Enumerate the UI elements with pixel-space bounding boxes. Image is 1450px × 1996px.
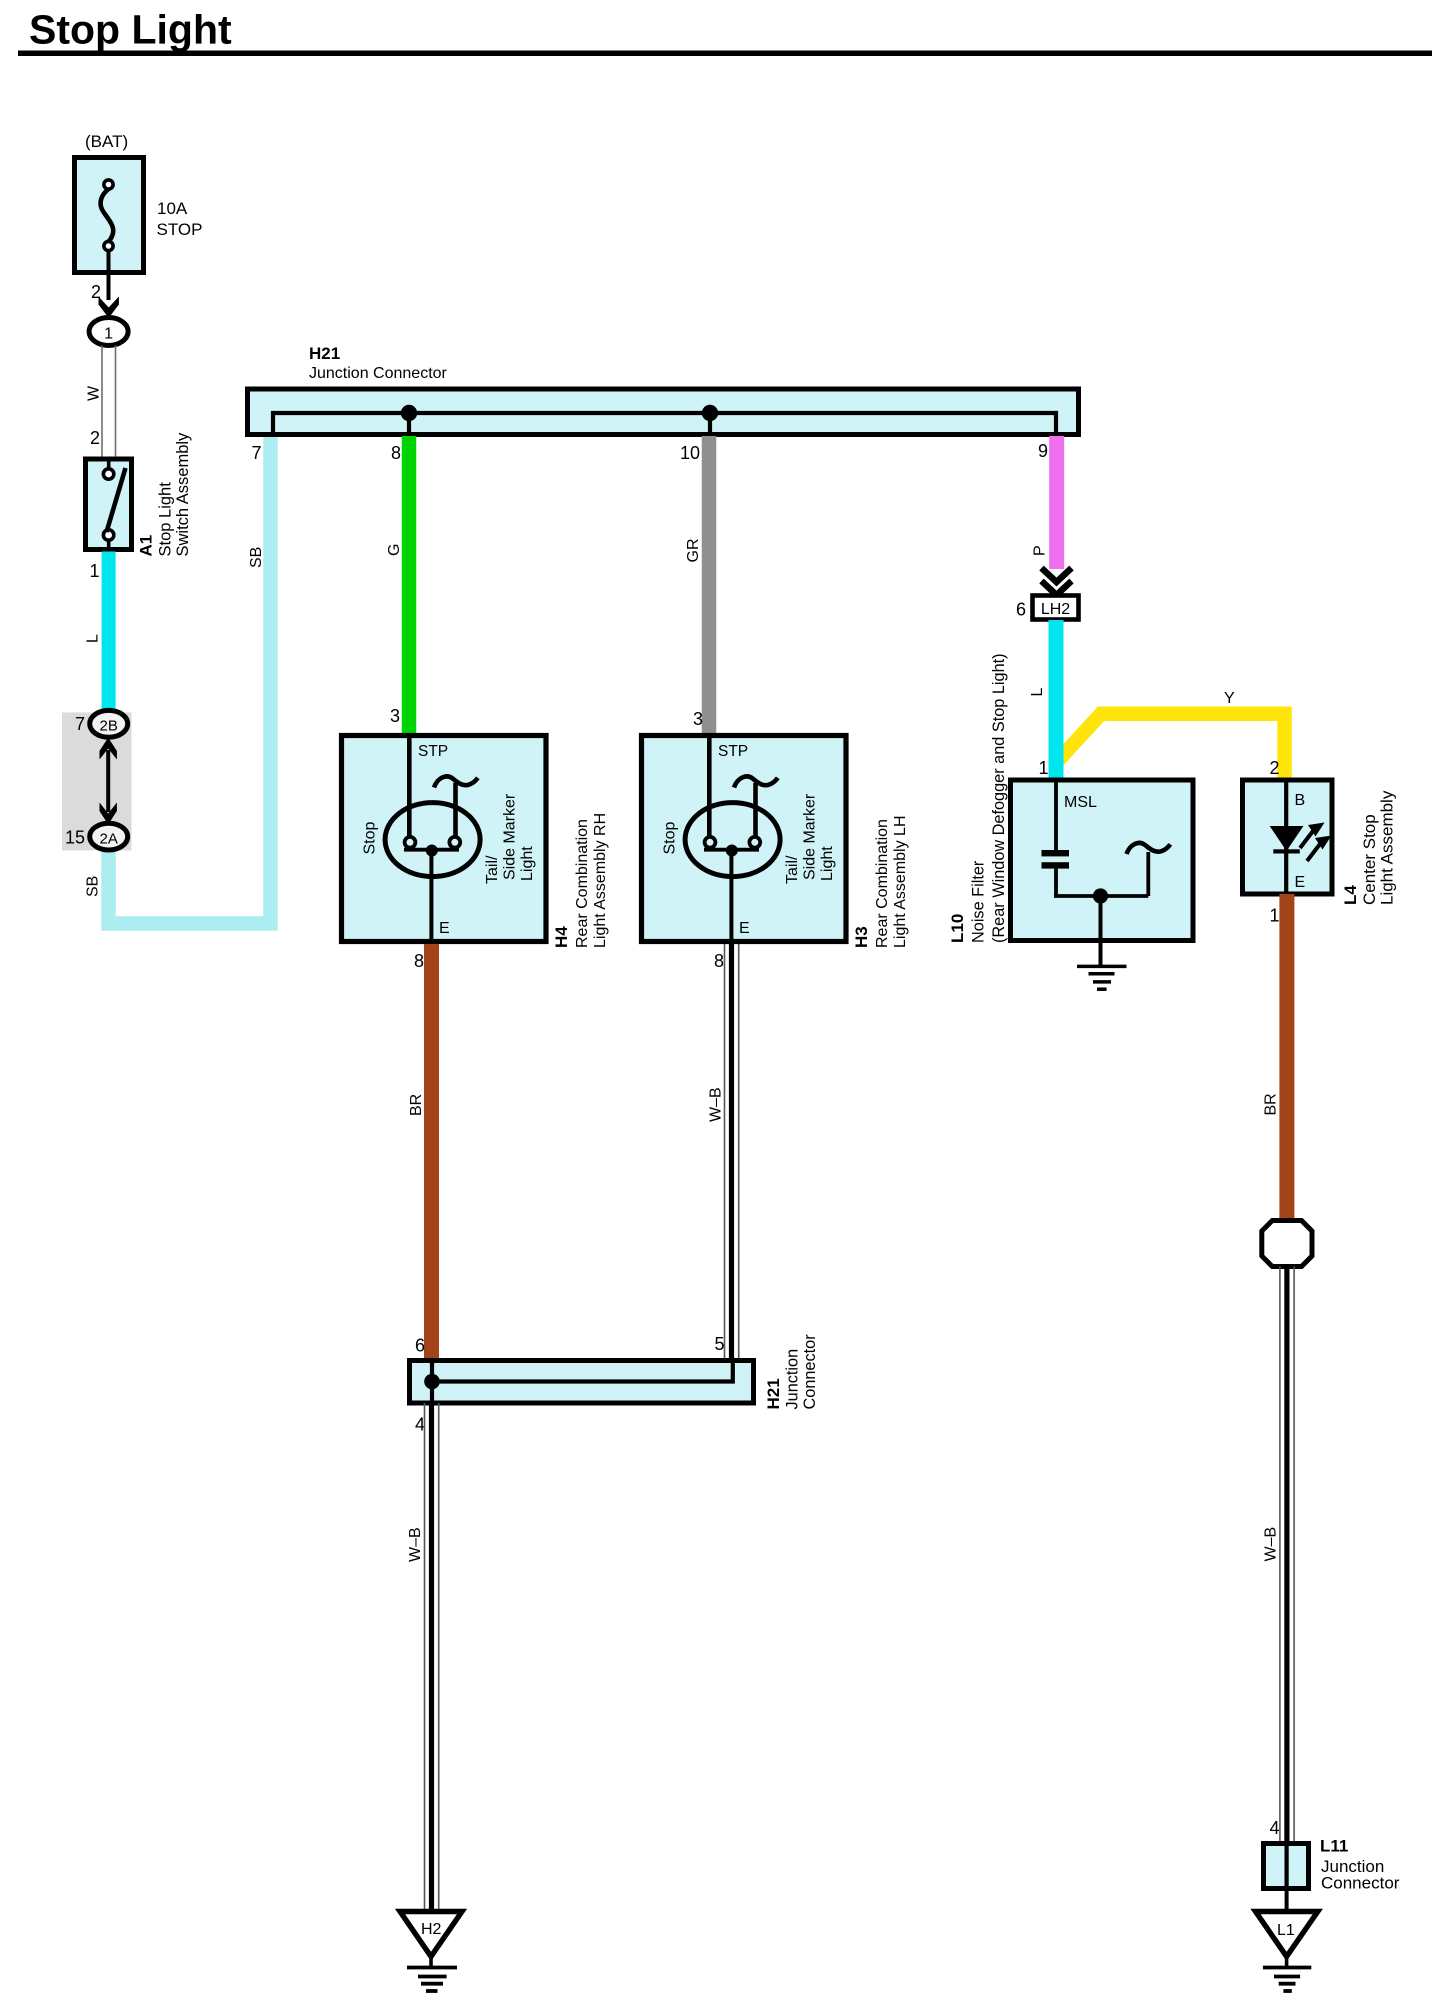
svg-text:H21: H21 xyxy=(764,1378,783,1409)
coil branch xyxy=(1146,852,1150,896)
svg-text:L: L xyxy=(85,634,102,643)
svg-text:E: E xyxy=(1295,874,1306,891)
svg-text:5: 5 xyxy=(714,1334,724,1354)
svg-text:Light Assembly: Light Assembly xyxy=(1378,790,1397,905)
junction node xyxy=(1093,888,1108,903)
earth ground xyxy=(1077,965,1127,969)
cathode bar xyxy=(1273,849,1300,853)
filament hooks xyxy=(405,837,416,848)
svg-text:L10: L10 xyxy=(948,914,967,943)
svg-text:G: G xyxy=(386,544,403,556)
center stop light L4 xyxy=(1243,780,1397,1220)
svg-text:Stop Light: Stop Light xyxy=(29,7,232,53)
fuse 10A STOP xyxy=(75,132,203,457)
svg-text:4: 4 xyxy=(415,1415,425,1435)
svg-text:2B: 2B xyxy=(100,718,118,735)
svg-text:Light: Light xyxy=(819,846,836,881)
svg-text:Tail/: Tail/ xyxy=(784,855,801,884)
switch box A1 xyxy=(86,459,132,550)
label H4 / Rear Combination Light Assembly RH xyxy=(552,813,609,948)
svg-text:7: 7 xyxy=(251,443,261,463)
svg-text:Connector: Connector xyxy=(801,1334,819,1410)
double chevron arrows xyxy=(1042,568,1072,582)
svg-text:7: 7 xyxy=(75,714,85,734)
svg-text:STP: STP xyxy=(418,743,448,760)
wire BR (brown) down to lower H21 pin 6 xyxy=(424,944,439,1359)
component box L4 xyxy=(1243,780,1333,894)
svg-text:E: E xyxy=(739,920,750,937)
component box H3 xyxy=(642,736,847,942)
svg-text:W–B: W–B xyxy=(708,1087,725,1122)
svg-text:Center Stop: Center Stop xyxy=(1360,814,1379,905)
label L10 / Noise Filter (Rear Window Defogger and Stop Light) xyxy=(948,653,1008,943)
title "Stop Light" xyxy=(18,7,1432,57)
svg-text:H3: H3 xyxy=(852,926,871,948)
oval 2A xyxy=(90,823,128,850)
svg-text:Junction Connector: Junction Connector xyxy=(309,365,448,382)
label L4 / Center Stop Light Assembly xyxy=(1341,790,1397,905)
svg-text:Light Assembly LH: Light Assembly LH xyxy=(892,815,909,948)
svg-text:STOP: STOP xyxy=(157,220,203,239)
label SB (left) xyxy=(85,876,102,897)
label A1 / Stop Light Switch Assembly xyxy=(137,432,193,557)
light arrows xyxy=(1300,831,1313,848)
label Tail/Side Marker Light xyxy=(484,793,536,884)
filament heater tilde xyxy=(434,776,478,787)
svg-text:15: 15 xyxy=(65,828,85,848)
svg-text:Stop Light: Stop Light xyxy=(157,482,175,557)
svg-text:W–B: W–B xyxy=(407,1527,424,1562)
svg-text:BR: BR xyxy=(1263,1093,1280,1115)
svg-text:3: 3 xyxy=(693,709,703,729)
svg-text:Light Assembly RH: Light Assembly RH xyxy=(592,813,609,948)
label Stop xyxy=(662,821,679,854)
svg-text:1: 1 xyxy=(89,561,99,581)
in-line connector arrows + LH2 xyxy=(1016,568,1285,779)
svg-text:Tail/: Tail/ xyxy=(484,855,501,884)
wire Y (yellow) branch to L4 xyxy=(1053,714,1285,779)
wire W-B to L11 xyxy=(1280,1267,1294,1844)
svg-text:Side Marker: Side Marker xyxy=(802,793,819,880)
svg-text:Light: Light xyxy=(519,846,536,881)
node pin10 xyxy=(702,405,718,421)
svg-text:6: 6 xyxy=(1016,600,1026,620)
svg-text:BR: BR xyxy=(408,1094,425,1116)
wire W (white) xyxy=(101,346,103,458)
junction connector H21 (top) xyxy=(248,344,1079,734)
svg-text:H21: H21 xyxy=(309,344,340,363)
bulb Stop: posts xyxy=(407,738,412,838)
label W xyxy=(86,385,103,401)
svg-text:8: 8 xyxy=(414,951,424,971)
svg-text:Side Marker: Side Marker xyxy=(502,793,519,880)
label H21 / Junction Connector xyxy=(764,1334,819,1410)
svg-text:H2: H2 xyxy=(421,1921,442,1938)
label L xyxy=(85,634,102,643)
connector oval 1 xyxy=(89,318,128,346)
svg-text:B: B xyxy=(1295,792,1306,809)
label Tail/Side Marker Light xyxy=(784,793,836,884)
svg-text:9: 9 xyxy=(1038,441,1048,461)
svg-text:L1: L1 xyxy=(1277,1922,1295,1939)
bulb envelope xyxy=(385,803,480,877)
fuse element xyxy=(101,189,114,242)
svg-text:Y: Y xyxy=(1224,690,1235,707)
ground stem xyxy=(1099,896,1103,967)
internal bus xyxy=(273,413,1056,435)
svg-text:SB: SB xyxy=(248,547,265,568)
tilde xyxy=(734,776,778,787)
svg-text:2: 2 xyxy=(1269,758,1279,778)
bulb envelope xyxy=(685,803,780,877)
bottom link xyxy=(1054,894,1148,898)
arrow down xyxy=(99,297,119,319)
svg-text:Rear Combination: Rear Combination xyxy=(574,819,591,948)
stem xyxy=(729,851,733,939)
svg-text:4: 4 xyxy=(1269,1818,1279,1838)
svg-text:A1: A1 xyxy=(137,535,156,557)
component box H4 xyxy=(342,736,547,942)
svg-text:(BAT): (BAT) xyxy=(85,132,128,151)
svg-text:1: 1 xyxy=(104,326,113,343)
wire G (green) to H4 xyxy=(402,436,417,734)
fuse box xyxy=(75,158,144,273)
connector bar H21 xyxy=(248,389,1079,435)
svg-text:Noise Filter: Noise Filter xyxy=(970,860,988,943)
wire P (pink) to LH2 xyxy=(1049,436,1064,569)
wire L (cyan) to L10 xyxy=(1049,620,1064,779)
svg-text:SB: SB xyxy=(85,876,102,897)
svg-text:MSL: MSL xyxy=(1064,794,1097,811)
connector bar H21 (lower) xyxy=(410,1361,754,1404)
stop light switch A1 xyxy=(85,432,193,716)
junction connector H21 (bottom) xyxy=(400,1334,819,1991)
svg-text:STP: STP xyxy=(718,743,748,760)
label SB (right vertical) xyxy=(248,547,265,568)
component box L10 xyxy=(1011,780,1194,941)
svg-text:Rear Combination: Rear Combination xyxy=(874,819,891,948)
wire L (cyan) xyxy=(102,552,116,717)
wire W-B from pin 4 to ground H2 xyxy=(425,1403,439,1911)
switch blade xyxy=(107,468,126,532)
svg-text:E: E xyxy=(439,920,450,937)
wire SB (pale cyan) from 2A down, right, up to H21 pin 7 xyxy=(109,436,271,924)
svg-text:2A: 2A xyxy=(100,831,118,848)
internal bus xyxy=(432,1361,733,1382)
label H3 / Rear Combination Light Assembly LH xyxy=(852,815,909,948)
bulb posts xyxy=(707,738,712,838)
oval 2B xyxy=(90,710,128,737)
connector block 2B/2A xyxy=(62,436,271,924)
svg-text:10A: 10A xyxy=(157,199,188,218)
svg-text:(Rear Window Defogger and Stop: (Rear Window Defogger and Stop Light) xyxy=(990,653,1008,943)
label Stop xyxy=(362,821,379,854)
svg-text:LH2: LH2 xyxy=(1041,601,1070,618)
noise filter L10 xyxy=(948,653,1193,989)
divider / conductor xyxy=(1284,780,1288,894)
svg-text:L4: L4 xyxy=(1341,885,1360,905)
svg-text:Junction: Junction xyxy=(784,1349,802,1410)
svg-text:1: 1 xyxy=(1269,906,1279,926)
svg-text:2: 2 xyxy=(90,428,100,448)
svg-text:P: P xyxy=(1032,545,1049,556)
connector LH2 xyxy=(1033,596,1079,620)
svg-text:6: 6 xyxy=(415,1336,425,1356)
hooks xyxy=(705,837,716,848)
svg-text:8: 8 xyxy=(714,951,724,971)
splice octagon xyxy=(1262,1221,1312,1267)
capacitor C xyxy=(1042,850,1070,856)
svg-text:H4: H4 xyxy=(552,926,571,948)
svg-text:W: W xyxy=(86,385,103,401)
wire W-B down to lower H21 pin 5 xyxy=(725,944,739,1359)
wire GR (gray) to H3 xyxy=(702,436,717,734)
svg-text:W–B: W–B xyxy=(1263,1527,1280,1562)
junction connector L11 xyxy=(1264,1844,1309,1889)
svg-text:Connector: Connector xyxy=(1321,1874,1400,1893)
svg-text:3: 3 xyxy=(390,706,400,726)
ground H2 xyxy=(400,1912,462,1992)
svg-text:1: 1 xyxy=(1038,758,1048,778)
fuse lead wire xyxy=(107,251,111,301)
rear combination light H4 (RH) xyxy=(342,706,610,1359)
wire BR (brown) to octagon splice xyxy=(1279,894,1294,1220)
svg-text:L: L xyxy=(1029,688,1046,697)
node pin4/6 junction xyxy=(424,1374,440,1390)
lead to ground xyxy=(1285,1888,1289,1911)
svg-text:8: 8 xyxy=(391,443,401,463)
switch contacts xyxy=(107,461,111,468)
svg-text:Stop: Stop xyxy=(362,821,379,854)
svg-text:L11: L11 xyxy=(1320,1837,1348,1856)
svg-text:Switch Assembly: Switch Assembly xyxy=(174,432,192,557)
capacitor branch xyxy=(1054,782,1058,850)
svg-text:GR: GR xyxy=(685,539,702,563)
ground L1 xyxy=(1256,1912,1318,1992)
svg-text:Stop: Stop xyxy=(662,821,679,854)
stem to E xyxy=(429,851,433,939)
node pin8 xyxy=(401,405,417,421)
rear combination light H3 (LH) xyxy=(642,709,910,1359)
svg-text:10: 10 xyxy=(680,443,700,463)
LED triangle xyxy=(1270,826,1304,851)
double arrow between 2B and 2A xyxy=(106,750,110,812)
bottom-right chain: splice, L11, ground L1 xyxy=(1256,1221,1400,1992)
